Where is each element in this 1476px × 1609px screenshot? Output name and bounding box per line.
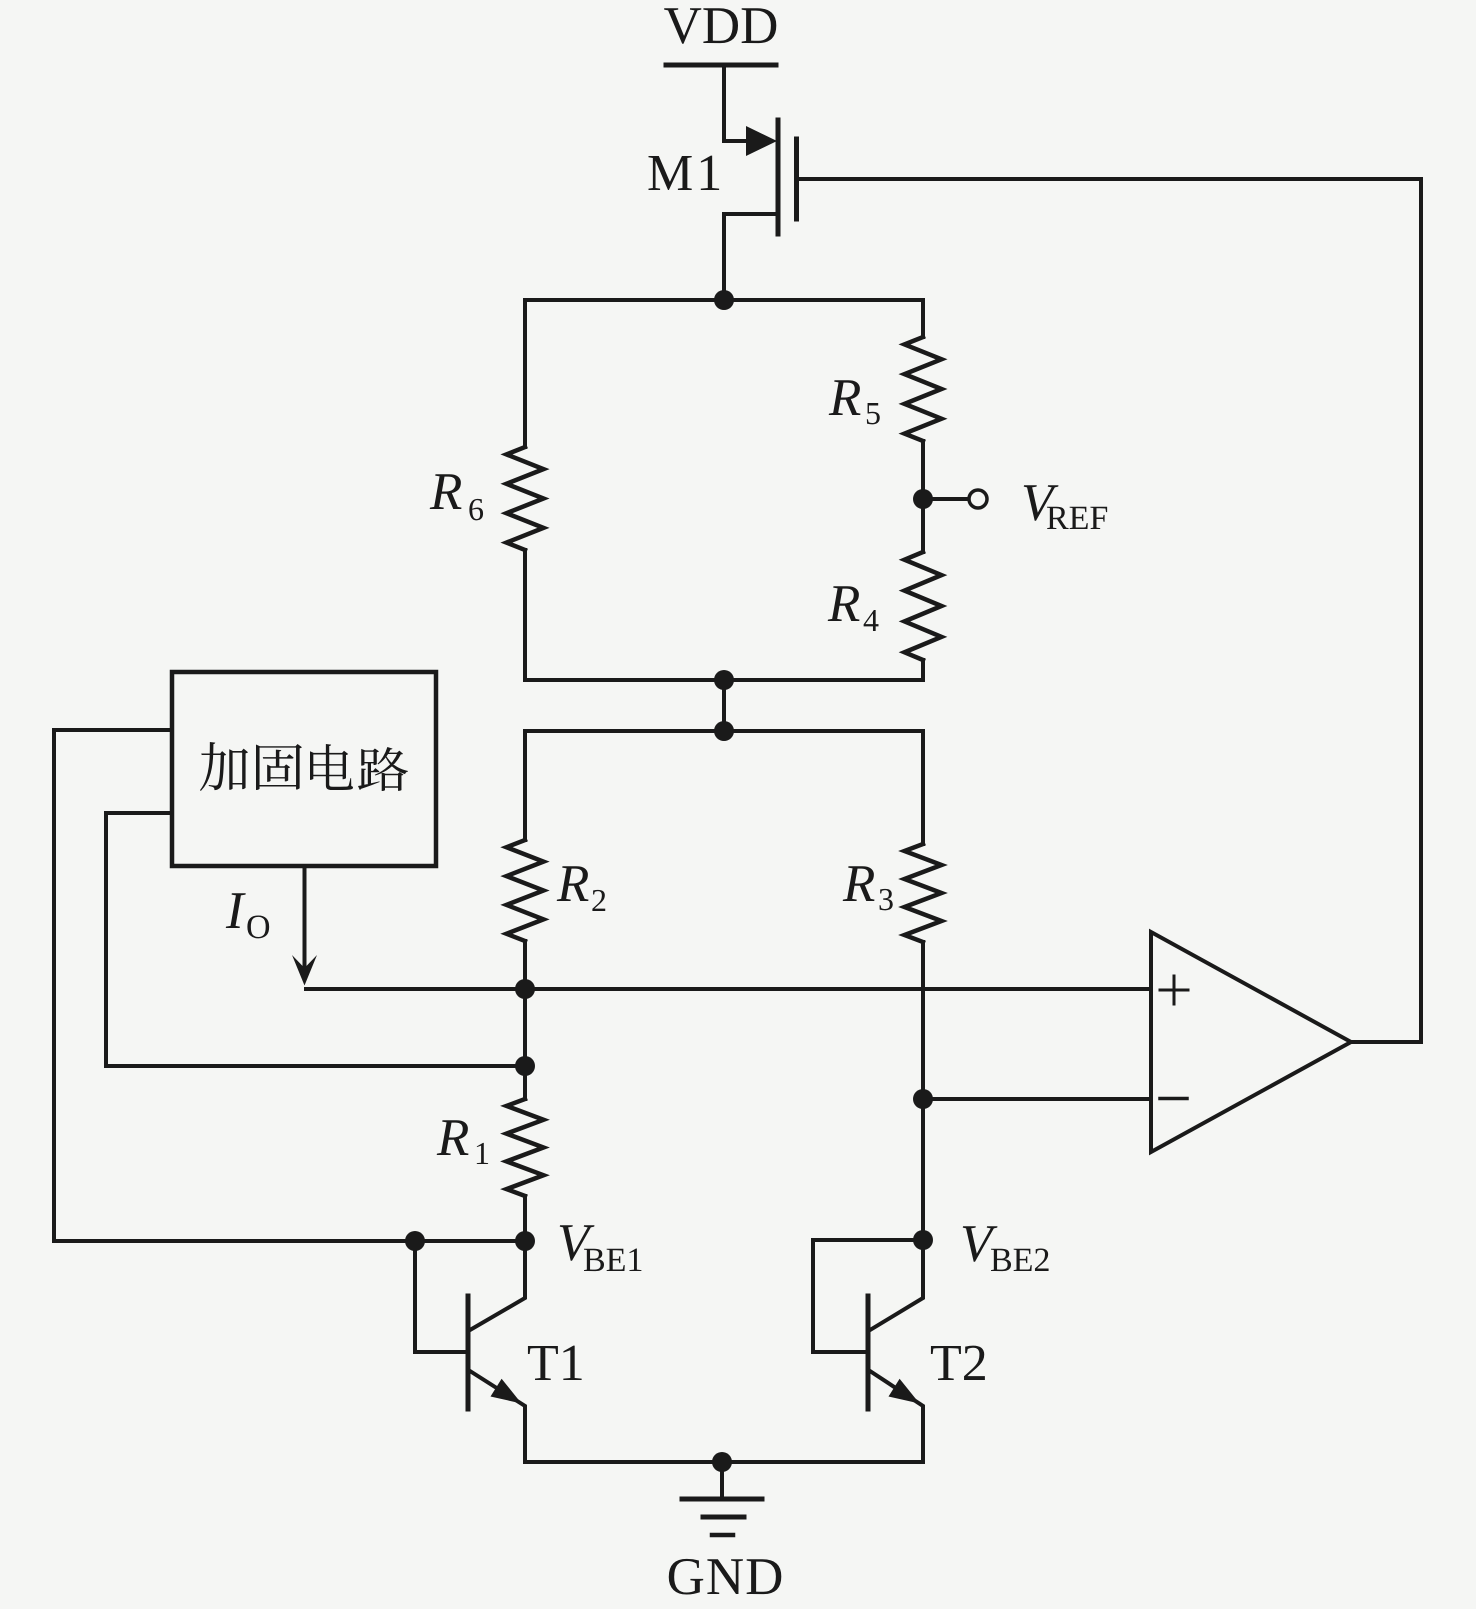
node VBE1 xyxy=(515,1231,535,1251)
label VBE2 xyxy=(963,1226,998,1262)
op-amp U1 xyxy=(1151,932,1351,1152)
label Vref xyxy=(1024,485,1059,521)
wire left branch top xyxy=(523,300,527,447)
wire R1 bottom xyxy=(523,1196,527,1241)
node reinforcement tap xyxy=(515,1056,535,1076)
wire M1 gate to op-amp output xyxy=(798,179,1421,1042)
resistor R5 xyxy=(905,337,942,441)
label VBE1 xyxy=(560,1225,595,1261)
wire plus input line xyxy=(306,987,1151,991)
resistor R1 xyxy=(507,1099,544,1196)
wire Vref stub xyxy=(933,497,968,501)
label T1 xyxy=(528,1346,558,1380)
ground symbol xyxy=(682,1462,762,1535)
node minus input xyxy=(913,1089,933,1109)
node ground junction xyxy=(712,1452,732,1472)
wire bottom rail xyxy=(525,1460,923,1464)
resistor R3 xyxy=(905,844,942,942)
label GND xyxy=(669,1559,703,1595)
terminal Vref xyxy=(969,490,987,508)
wire right branch top xyxy=(921,300,925,337)
transistor M1 xyxy=(724,120,797,300)
node Vref tap xyxy=(913,489,933,509)
label R5 xyxy=(829,380,861,415)
wire Io output xyxy=(303,866,307,966)
wire R3 top xyxy=(921,731,925,844)
wire link rails xyxy=(722,680,726,731)
node M1 drain / top rail xyxy=(714,290,734,310)
wire R5 to Vref node xyxy=(921,441,925,552)
wire R2 to VBE1 node xyxy=(523,941,527,1099)
wire R2 top xyxy=(523,731,527,840)
label VDD xyxy=(664,8,701,44)
node VBE2 xyxy=(913,1230,933,1250)
wire top rail xyxy=(525,298,923,302)
label R1 xyxy=(437,1120,469,1155)
transistor T1 xyxy=(415,1241,525,1462)
resistor R4 xyxy=(905,552,942,660)
node T1 base tap xyxy=(405,1231,425,1251)
wire left branch bottom xyxy=(523,550,527,680)
node upper bottom rail xyxy=(714,670,734,690)
reinforcement circuit box xyxy=(172,672,436,866)
wire R4 bottom xyxy=(921,660,925,680)
node R2 bottom / plus line xyxy=(515,979,535,999)
wire upper bottom rail xyxy=(525,678,923,682)
resistor R6 xyxy=(507,447,544,550)
wire lower top rail xyxy=(525,729,923,733)
wire box lower feedback xyxy=(106,813,525,1066)
wire box upper feedback xyxy=(54,730,525,1241)
label T2 xyxy=(931,1346,961,1380)
label M1 xyxy=(648,156,691,190)
VDD power symbol xyxy=(666,63,776,68)
resistor R2 xyxy=(507,840,544,941)
wire minus input line xyxy=(923,1097,1151,1101)
wire R3 to T2 xyxy=(921,942,925,1240)
node lower top rail xyxy=(714,721,734,741)
box text jiagu dianlu xyxy=(200,742,408,791)
label R3 xyxy=(843,866,875,901)
label R4 xyxy=(828,586,860,621)
transistor T2 xyxy=(813,1240,923,1462)
label Io xyxy=(226,893,246,928)
label R6 xyxy=(430,474,462,509)
wire VDD to M1 source xyxy=(724,65,746,141)
label R2 xyxy=(557,866,589,901)
